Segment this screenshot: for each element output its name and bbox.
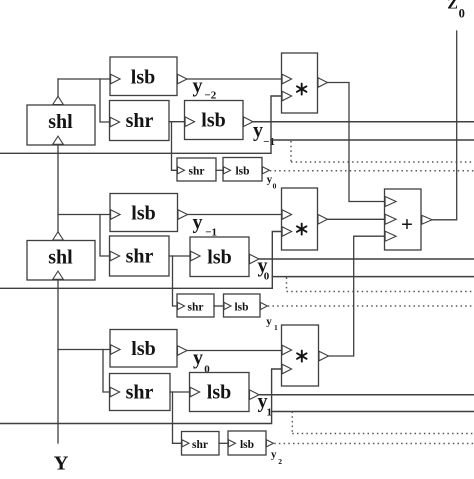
input port arrow on bottom of shl2 [53, 271, 64, 279]
input port arrow of group-1 shr [110, 117, 120, 127]
svg-text:shr: shr [126, 110, 154, 132]
svg-text:shr: shr [126, 382, 154, 404]
multiplier 2 block [282, 188, 318, 250]
output port arrow of group-3 second lsb [250, 390, 260, 400]
svg-text:Y: Y [54, 453, 69, 475]
output port arrow of group-2 second lsb [250, 254, 260, 264]
multiplier 3 block [282, 325, 319, 386]
wire: multiplier 2 output to adder input 2 [328, 218, 385, 220]
block small shr (group 2) [177, 294, 214, 317]
block small shr (group 1) [177, 158, 216, 181]
output port arrow of group-1 upper lsb [178, 74, 188, 84]
dotted bus y_1 to right edge (group 2, lower) [268, 305, 474, 307]
svg-text:lsb: lsb [131, 338, 155, 360]
output port arrow of group-1 small lsb [262, 167, 269, 174]
wire: y_-2 from lsb output to multiplier 1 input [187, 78, 282, 80]
svg-text:shr: shr [126, 246, 154, 268]
block lsb (group 2, upper) [110, 194, 178, 232]
output port arrow of group-1 second lsb [244, 117, 254, 127]
svg-text:y: y [253, 120, 263, 142]
svg-text:lsb: lsb [207, 247, 231, 269]
svg-text:shr: shr [192, 439, 208, 451]
output port arrow of adder [422, 215, 432, 224]
block lsb (group 1, second) [185, 101, 244, 140]
svg-text:shl: shl [48, 247, 73, 269]
wire: shr output to second lsb input (group 2) [169, 255, 190, 257]
block lsb (group 1, upper) [110, 57, 177, 96]
svg-text:−2: −2 [205, 90, 217, 102]
block lsb (group 2, second) [190, 237, 249, 277]
wire: group-3 branch down to shr input [103, 350, 110, 393]
adder block [385, 189, 422, 250]
svg-text:y: y [193, 212, 203, 234]
wire: Y input main vertical segment (Y label up to shl2 bottom) [57, 280, 59, 443]
input port arrow of group-2 upper lsb [111, 210, 121, 220]
wire: left-edge feed line group 2 (from x=0 up to multiplier 2 second input) [0, 232, 282, 289]
output port arrow of group-2 upper lsb [178, 210, 188, 220]
output port arrow of multiplier 2 [318, 215, 328, 225]
wire: branch down from shr output to small shr (group 3) [173, 392, 182, 443]
svg-text:+: + [401, 212, 413, 236]
input port arrow 3 of adder [385, 231, 396, 241]
svg-text:0: 0 [273, 181, 277, 190]
dotted net from group-3 second output down [291, 412, 293, 434]
dotted bus to right edge (group 1, upper) [291, 161, 474, 163]
block shr (group 3) [110, 374, 171, 411]
svg-text:1: 1 [274, 323, 278, 332]
wire: y_-1 from lsb output to multiplier 2 input [188, 214, 282, 216]
svg-text:lsb: lsb [131, 203, 155, 225]
svg-text:0: 0 [264, 271, 270, 283]
output port arrow of multiplier 1 [318, 78, 328, 88]
svg-text:y: y [193, 347, 203, 369]
output port arrow of group-2 small lsb [260, 302, 267, 309]
svg-text:y: y [271, 448, 277, 460]
input port arrow of group-2 small lsb [224, 302, 231, 309]
dotted bus to right edge (group 2, upper) [287, 291, 474, 293]
svg-text:shr: shr [188, 302, 204, 314]
input port arrow 1 of multiplier 3 [282, 345, 292, 355]
wire: left-edge feed line group 3 (from x=0 up to multiplier 3 second input) [0, 369, 282, 424]
wire: group-1 horizontal from shl1 output to lsb input [58, 78, 110, 80]
svg-text:shl: shl [48, 111, 73, 133]
wire: shr output to second lsb input (group 3) [170, 391, 190, 393]
output port arrow of group-3 small lsb [266, 440, 273, 447]
wire: main vertical segment (shl2 top up to shl1 bottom) [57, 145, 59, 241]
wire: y_0 from lsb output to multiplier 3 input [187, 350, 282, 352]
wire: small shr to small lsb (group 3) [219, 442, 228, 444]
wire: multiplier 1 output down to adder input 1 [328, 83, 385, 202]
input port arrow of group-3 upper lsb [111, 345, 121, 355]
svg-text:−1: −1 [263, 136, 275, 148]
input port arrow of group-2 small shr [178, 302, 185, 309]
wire: left-edge feed line group 1 (from x=0 up to multiplier 1 second input) [0, 96, 282, 153]
input port arrow 2 of multiplier 2 [282, 227, 292, 237]
input port arrow of group-1 second lsb [185, 117, 195, 127]
dotted net from group-2 second output down [286, 278, 288, 292]
wire: multiplier 3 output up to adder input 3 [329, 236, 385, 356]
svg-text:lsb: lsb [240, 439, 254, 451]
input port arrow 1 of multiplier 2 [282, 210, 292, 220]
output port arrow of multiplier 3 [319, 351, 329, 361]
bus wire y_1 to right edge (group 3) [259, 394, 474, 396]
svg-text:lsb: lsb [234, 302, 248, 314]
input port arrow of group-1 small lsb [224, 167, 231, 174]
bus wire second output to right edge (group 2) [272, 276, 474, 278]
svg-text:y: y [266, 315, 272, 327]
input port arrow of group-3 shr [110, 387, 120, 397]
svg-text:shr: shr [189, 166, 205, 178]
dotted bus y_2 to right edge (group 3, lower) [274, 443, 474, 445]
block lsb (group 3, second) [190, 373, 250, 412]
wire: group-2 horizontal from shl2 output to lsb input [58, 214, 110, 216]
block shl2 [27, 241, 95, 281]
output port arrow on top of shl2 [53, 232, 64, 240]
svg-text:Z: Z [447, 0, 458, 13]
wire: branch down from shr output to small shr (group 1) [172, 122, 178, 171]
bus wire second output to right edge (group 1) [271, 139, 474, 141]
dotted net from group-1 second output down [290, 141, 292, 162]
input port arrow 2 of multiplier 3 [282, 364, 292, 374]
input port arrow on bottom of shl1 [53, 136, 64, 144]
block small lsb (group 2) [224, 294, 261, 317]
wire: group-3 tap from main line to lsb input [58, 349, 110, 351]
wire: group-2 branch down to shr input [100, 215, 110, 257]
block small shr (group 3) [182, 432, 220, 456]
svg-text:lsb: lsb [235, 166, 249, 178]
wire: group-1 branch down to shr input [100, 79, 110, 122]
dotted bus to right edge (group 3, upper) [292, 433, 474, 435]
multiplier 1 block [282, 53, 318, 113]
input port arrow of group-3 small lsb [229, 440, 236, 447]
input port arrow of group-2 second lsb [191, 251, 201, 261]
dotted bus y_0 to right edge (group 1, lower) [270, 170, 474, 172]
svg-text:0: 0 [459, 7, 465, 21]
input port arrow of group-3 second lsb [190, 387, 200, 397]
bus wire y_0 to right edge (group 2) [259, 258, 474, 260]
wire: adder output up to Z_0 [432, 31, 457, 220]
input port arrow of group-1 small shr [178, 167, 185, 174]
wire: branch down from shr output to small shr (group 2) [173, 256, 178, 306]
output port arrow on top of shl1 [53, 96, 64, 104]
output port arrow of group-3 upper lsb [178, 346, 188, 356]
block small lsb (group 3) [228, 431, 266, 455]
input port arrow of group-3 small shr [182, 440, 189, 447]
wire: shr output to second lsb input (group 1) [169, 121, 185, 123]
block shr (group 1) [110, 101, 170, 141]
svg-text:y: y [193, 75, 203, 97]
input port arrow 2 of adder [385, 214, 396, 224]
input port arrow 1 of multiplier 1 [282, 74, 292, 84]
svg-text:lsb: lsb [201, 110, 225, 132]
input port arrow 1 of adder [385, 197, 396, 207]
block lsb (group 3, upper) [110, 330, 177, 368]
block shl1 [27, 105, 95, 145]
bus wire second output to right edge (group 3) [272, 411, 474, 413]
block shr (group 2) [110, 236, 170, 276]
wire: small shr to small lsb (group 2) [214, 305, 224, 307]
bus wire y_-1 to right edge (group 1) [253, 121, 474, 123]
svg-text:lsb: lsb [131, 67, 155, 89]
svg-text:lsb: lsb [207, 382, 231, 404]
input port arrow of group-1 upper lsb [111, 74, 121, 84]
wire: small shr to small lsb (group 1) [216, 169, 223, 171]
input port arrow 2 of multiplier 1 [282, 91, 292, 101]
wire: main vertical segment (shl1 top up to group-1 tap) [57, 79, 59, 105]
block small lsb (group 1) [223, 158, 262, 182]
svg-text:2: 2 [278, 457, 282, 466]
input port arrow of group-2 shr [110, 251, 120, 261]
